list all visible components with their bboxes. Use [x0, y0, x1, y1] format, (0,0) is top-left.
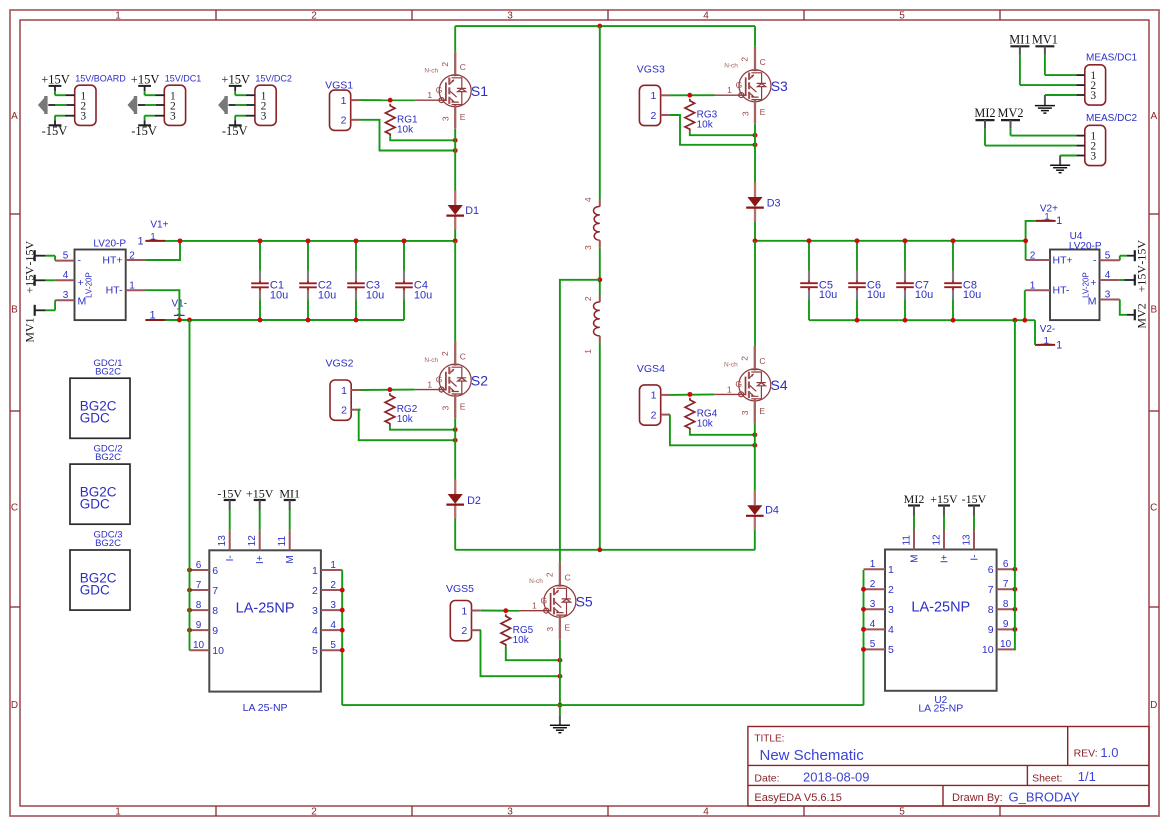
svg-text:7: 7	[196, 580, 202, 591]
svg-text:LV-20P: LV-20P	[85, 272, 94, 298]
svg-text:10: 10	[212, 645, 224, 657]
-15V power flag of P2	[131, 120, 157, 138]
MI1 power flag	[1009, 32, 1030, 55]
svg-text:I+: I+	[255, 555, 266, 564]
svg-text:1: 1	[330, 560, 336, 571]
junction C8 bottom	[951, 318, 956, 323]
svg-text:1: 1	[115, 806, 121, 817]
svg-text:2: 2	[440, 351, 450, 356]
svg-text:1: 1	[341, 95, 347, 107]
svg-text:4: 4	[870, 619, 876, 630]
IC U1 LA-25NP	[209, 550, 321, 691]
svg-text:1: 1	[341, 385, 347, 397]
diode D4	[746, 491, 779, 530]
svg-text:10u: 10u	[915, 289, 933, 301]
M arrow flag of P1	[38, 96, 48, 114]
svg-text:Drawn By:: Drawn By:	[952, 792, 1003, 804]
wire V2- flag drop	[1034, 320, 1036, 345]
svg-text:10: 10	[1000, 639, 1012, 650]
svg-text:11: 11	[902, 535, 913, 546]
svg-text:5: 5	[899, 10, 905, 21]
svg-text:VGS1: VGS1	[325, 80, 353, 92]
junction RG2 top	[387, 387, 392, 392]
svg-text:Date:: Date:	[754, 772, 779, 784]
junction pin 6	[187, 568, 192, 573]
junction RG3/emitter	[753, 133, 758, 138]
svg-text:-15V: -15V	[131, 124, 157, 138]
+15V flag left edge	[22, 266, 55, 294]
svg-text:3: 3	[870, 599, 876, 610]
wire top rail to S3 collector	[754, 26, 756, 47]
pin 10 of U2	[982, 639, 1015, 656]
junction pin 7	[1012, 587, 1017, 592]
svg-text:A: A	[11, 111, 18, 122]
svg-text:LV-20P: LV-20P	[1082, 272, 1091, 298]
MI2 power flag	[974, 106, 995, 129]
pin 4 of U2	[864, 619, 895, 636]
svg-text:1: 1	[532, 601, 537, 611]
svg-text:9: 9	[988, 624, 994, 636]
connector VGS5	[450, 601, 471, 641]
pin 7 of U2	[988, 579, 1015, 596]
svg-text:-15V: -15V	[42, 124, 68, 138]
junction C3 top	[354, 238, 359, 243]
resistor RG4 10k	[685, 398, 718, 430]
wire V1- rail	[166, 319, 404, 321]
svg-text:10u: 10u	[270, 289, 288, 301]
pin 1 stub of VGS2	[351, 389, 360, 391]
junction VGS3.2/emitter	[753, 142, 758, 147]
svg-text:GDC: GDC	[80, 582, 110, 597]
svg-text:2: 2	[650, 110, 656, 122]
svg-text:New Schematic: New Schematic	[760, 747, 865, 764]
junction C7 bottom	[903, 318, 908, 323]
svg-text:+: +	[78, 277, 84, 289]
svg-text:N-ch: N-ch	[529, 578, 543, 585]
junction RG5 top	[503, 608, 508, 613]
svg-text:4: 4	[330, 620, 336, 631]
wire VGS3.1 to gate	[670, 94, 715, 96]
net flag V2-	[1035, 324, 1062, 352]
svg-text:10u: 10u	[819, 289, 837, 301]
svg-text:-15V: -15V	[962, 492, 987, 506]
pin 1 stub (HT-) of U4	[1025, 289, 1050, 291]
pin 2 stub of VGS2	[351, 409, 360, 411]
pin 8 of U2	[988, 599, 1015, 616]
net flag V1-	[145, 299, 187, 322]
-15V power flag of P3	[222, 120, 248, 138]
svg-text:4: 4	[1105, 270, 1111, 281]
connector J2 (MEAS/DC2)	[1085, 113, 1138, 166]
svg-text:3: 3	[545, 627, 555, 632]
junction RG4/emitter	[752, 432, 757, 437]
connector P1 (15V/BOARD)	[75, 73, 127, 125]
pin 2 stub of VGS3	[661, 114, 670, 116]
wire pin3 to ground	[1076, 155, 1084, 157]
MI1 power flag above U1	[279, 487, 300, 531]
svg-text:+15V: +15V	[41, 72, 70, 86]
M arrow flag of P3	[218, 96, 228, 114]
connector VGS3	[639, 85, 660, 125]
junction V2+/HT+	[1023, 238, 1028, 243]
title block	[748, 727, 1149, 807]
svg-text:1: 1	[650, 90, 656, 102]
junction V1- to LA wire	[187, 318, 192, 323]
pin 12 (I+) of U2	[932, 530, 951, 564]
wire top rail	[455, 25, 755, 27]
svg-text:LA-25NP: LA-25NP	[236, 600, 295, 616]
wire S5 emitter down	[559, 639, 561, 705]
svg-text:N-ch: N-ch	[424, 357, 438, 364]
svg-text:+15V: +15V	[246, 487, 274, 501]
svg-text:+: +	[1090, 277, 1096, 289]
pin 5 stub of LV20-P left	[55, 260, 74, 262]
svg-text:10: 10	[982, 644, 994, 656]
svg-text:10k: 10k	[697, 419, 714, 430]
svg-text:N-ch: N-ch	[724, 63, 738, 70]
svg-text:E: E	[759, 406, 765, 416]
pin 3 of U2	[864, 599, 895, 616]
pin 1 stub of VGS3	[661, 94, 670, 96]
svg-text:N-ch: N-ch	[424, 68, 438, 75]
svg-text:-: -	[78, 255, 82, 267]
svg-text:I+: I+	[940, 554, 951, 563]
junction C3 bottom	[354, 318, 359, 323]
wire MI1 to pin2	[1019, 55, 1021, 85]
transistor S5 (N-ch)	[519, 562, 593, 639]
svg-text:VGS5: VGS5	[446, 583, 474, 595]
svg-text:2: 2	[870, 579, 876, 590]
pin 11 (M) of U1	[277, 530, 296, 563]
svg-text:5: 5	[888, 644, 894, 656]
junction pin 3	[340, 608, 345, 613]
wire V1+ rail	[166, 240, 455, 242]
pin 6 of U2	[988, 559, 1015, 576]
svg-text:VGS2: VGS2	[326, 358, 354, 370]
ground of J1	[1035, 106, 1055, 114]
svg-text:1: 1	[1056, 215, 1062, 227]
svg-text:MV1: MV1	[22, 317, 36, 342]
junction RG1 top	[388, 98, 393, 103]
svg-text:GDC: GDC	[80, 411, 110, 426]
wire inductor bottom to lower rail	[599, 343, 601, 550]
net flag V1+	[137, 220, 168, 248]
transistor S1 (N-ch)	[415, 52, 489, 129]
svg-text:M: M	[910, 555, 921, 563]
junction pin 7	[187, 588, 192, 593]
wire RG1 bottom to emitter	[390, 136, 455, 140]
svg-text:D: D	[1150, 700, 1157, 711]
svg-text:2: 2	[330, 580, 336, 591]
pin 2 stub (HT+) of LV20-P left	[126, 259, 146, 261]
wire D1 to V1+ rail	[454, 230, 456, 241]
MV1 flag left edge	[22, 300, 55, 342]
svg-text:10k: 10k	[697, 119, 714, 130]
wire VGS3.2 to emitter	[670, 115, 755, 145]
MV2 power flag	[998, 106, 1024, 129]
wire pin3 of P1	[65, 115, 75, 117]
svg-text:+15V: +15V	[131, 72, 160, 86]
wire S3 emitter to D3	[754, 124, 756, 183]
+15V power flag above U1	[246, 487, 274, 531]
svg-text:4: 4	[312, 625, 318, 637]
pin 8 of U1	[190, 600, 219, 617]
wire RG5 bottom to emitter	[506, 647, 560, 661]
wire inductor top feed	[599, 26, 601, 199]
wire bottom rail	[342, 704, 863, 706]
svg-text:HT+: HT+	[102, 254, 122, 266]
svg-text:VGS3: VGS3	[637, 63, 665, 75]
svg-text:1: 1	[870, 559, 876, 570]
svg-text:MEAS/DC2: MEAS/DC2	[1086, 113, 1138, 124]
connector VGS4	[640, 385, 661, 425]
svg-text:1.0: 1.0	[1100, 745, 1118, 760]
svg-text:6: 6	[212, 565, 218, 577]
svg-text:2: 2	[1030, 250, 1036, 261]
svg-text:4: 4	[888, 624, 894, 636]
wire V2+ node to S4 collector	[754, 241, 756, 346]
wire VGS2.1 to gate	[361, 389, 415, 391]
svg-text:2: 2	[341, 115, 347, 127]
junction VGS5.2/emitter	[557, 674, 562, 679]
svg-text:MI2: MI2	[974, 106, 995, 120]
svg-text:-15V: -15V	[22, 241, 36, 266]
wire V2- rail	[809, 319, 1035, 321]
svg-text:MI1: MI1	[1009, 32, 1030, 46]
svg-text:A: A	[1150, 111, 1157, 122]
junction HT-/V2-	[1022, 318, 1027, 323]
pin 13 (I-) of U2	[962, 530, 981, 561]
svg-text:D4: D4	[765, 505, 779, 517]
MI2 power flag above U2	[904, 492, 925, 529]
svg-text:G: G	[436, 85, 443, 95]
svg-text:1: 1	[137, 235, 143, 247]
svg-text:E: E	[565, 622, 571, 632]
svg-text:2: 2	[583, 296, 593, 301]
diode D2	[446, 480, 481, 519]
svg-text:G: G	[735, 379, 742, 389]
svg-text:C: C	[760, 57, 766, 67]
junction HT+/V1+	[178, 238, 183, 243]
svg-text:LA 25-NP: LA 25-NP	[243, 702, 288, 714]
pin 4 stub of LV20-P left	[55, 279, 74, 281]
connector VGS1	[330, 90, 351, 130]
wire MV1 to pin1	[1044, 55, 1046, 75]
pin 9 of U2	[988, 619, 1015, 636]
svg-text:2: 2	[888, 584, 894, 596]
wire V2- to LA U2 pins	[1014, 320, 1016, 650]
svg-text:HT+: HT+	[1053, 254, 1073, 266]
diode D1	[446, 191, 479, 230]
svg-text:1: 1	[461, 605, 467, 617]
svg-text:-15V: -15V	[222, 124, 248, 138]
module BG2C GDC/3	[70, 530, 130, 611]
connector P3 (15V/DC2)	[255, 73, 292, 125]
+15V power flag of P1	[41, 72, 70, 95]
module BG2C GDC/2	[70, 444, 130, 525]
wire pin1 of P2	[145, 94, 156, 96]
svg-text:2: 2	[651, 409, 657, 421]
wire VGS2.2 to emitter	[359, 410, 456, 441]
pin 3 stub of LV20-P left	[55, 299, 74, 301]
svg-text:1: 1	[727, 85, 732, 95]
svg-text:8: 8	[988, 604, 994, 616]
op-amp/transducer LV20-P left	[75, 238, 127, 320]
svg-text:3: 3	[1105, 290, 1111, 301]
svg-text:GDC: GDC	[80, 497, 110, 512]
svg-text:11: 11	[277, 535, 288, 546]
svg-text:5: 5	[870, 639, 876, 650]
svg-text:LA-25NP: LA-25NP	[911, 600, 970, 616]
junction pin 4	[861, 627, 866, 632]
svg-text:S1: S1	[471, 83, 488, 99]
junction RG4 top	[687, 392, 692, 397]
svg-text:G: G	[736, 80, 743, 90]
junction pin 9	[1012, 627, 1017, 632]
svg-text:1: 1	[888, 564, 894, 576]
wire VGS1.1 to gate	[360, 99, 415, 101]
svg-text:V2-: V2-	[1040, 324, 1056, 335]
svg-text:2: 2	[545, 572, 555, 577]
wire S2 emitter to D2	[454, 418, 456, 479]
inductor L1 upper winding (pins 4-3)	[583, 197, 600, 250]
pin 2 stub (HT+) of U4	[1026, 259, 1050, 261]
svg-text:C: C	[460, 351, 466, 361]
pin 1 of U2	[864, 559, 895, 576]
wire VGS4.1 to gate	[670, 393, 714, 396]
svg-text:1: 1	[1030, 281, 1036, 292]
svg-text:4: 4	[703, 10, 709, 21]
pin 6 of U1	[190, 560, 219, 577]
svg-text:BG2C: BG2C	[95, 366, 121, 377]
svg-text:7: 7	[212, 585, 218, 597]
junction pin 9	[187, 628, 192, 633]
wire S1 emitter to D1	[454, 129, 456, 191]
junction pin 2	[861, 587, 866, 592]
svg-text:HT-: HT-	[106, 285, 123, 297]
+15V power flag of P2	[131, 72, 160, 95]
pin 5 of U2	[864, 639, 895, 656]
svg-text:+15V: +15V	[1134, 265, 1148, 293]
svg-text:C: C	[759, 356, 765, 366]
svg-text:REV:: REV:	[1074, 747, 1098, 759]
svg-text:LV20-P: LV20-P	[1069, 241, 1102, 252]
svg-text:LV20-P: LV20-P	[93, 238, 126, 249]
diode D3	[746, 183, 780, 222]
wire HT- to V1- rail	[145, 290, 179, 320]
svg-text:1: 1	[583, 349, 593, 354]
wire pin3 to ground	[1076, 94, 1084, 96]
junction V2- to LA wire	[1012, 318, 1017, 323]
wire D3 to V2+ rail	[754, 222, 756, 241]
pin 1 stub (HT-) of LV20-P left	[126, 289, 146, 291]
svg-text:7: 7	[1003, 579, 1009, 590]
M arrow flag of P2	[128, 96, 138, 114]
wire lower rail	[455, 549, 755, 551]
svg-text:2: 2	[461, 625, 467, 637]
svg-text:I-: I-	[225, 555, 236, 561]
svg-text:MI1: MI1	[279, 487, 300, 501]
junction C2 bottom	[306, 318, 311, 323]
svg-text:1: 1	[727, 384, 732, 394]
wire RG3 bottom to emitter	[690, 131, 755, 135]
svg-text:10: 10	[193, 640, 205, 651]
svg-text:3: 3	[170, 111, 176, 123]
ruler numbers top	[115, 10, 905, 21]
pin 10 of U1	[190, 640, 225, 657]
svg-text:S3: S3	[771, 78, 788, 94]
svg-text:15V/DC2: 15V/DC2	[255, 73, 292, 83]
svg-text:3: 3	[740, 111, 750, 116]
designator of U2	[918, 695, 963, 715]
junction VGS4.2/emitter	[752, 443, 757, 448]
svg-text:3: 3	[507, 10, 513, 21]
wire D2 to lower rail	[454, 519, 456, 550]
junction C2 top	[306, 238, 311, 243]
svg-text:15V/BOARD: 15V/BOARD	[75, 73, 126, 83]
ruler letters right	[1150, 111, 1157, 711]
svg-text:LA 25-NP: LA 25-NP	[918, 702, 963, 714]
svg-text:9: 9	[1003, 619, 1009, 630]
svg-text:5: 5	[330, 640, 336, 651]
resistor RG3 10k	[685, 99, 718, 131]
capacitor C2	[299, 241, 336, 320]
-15V power flag above U1	[217, 487, 242, 531]
svg-text:10u: 10u	[414, 289, 432, 301]
junction pin 8	[1012, 607, 1017, 612]
wire inductor mid	[599, 247, 601, 295]
op-amp/transducer U4 LV20-P	[1050, 231, 1102, 320]
pin 3 stub of U4	[1100, 299, 1120, 301]
svg-text:BG2C: BG2C	[95, 452, 121, 463]
designator of U1	[243, 702, 288, 714]
svg-text:MV2: MV2	[998, 106, 1024, 120]
capacitor C4	[395, 241, 432, 320]
svg-text:3: 3	[261, 111, 267, 123]
wire tap to S5 column	[560, 280, 600, 562]
svg-text:C: C	[1150, 503, 1157, 514]
ground of J2	[1050, 165, 1070, 173]
wire pin2 of P3	[229, 104, 236, 106]
junction RG3 top	[687, 93, 692, 98]
pin 1 stub of VGS5	[472, 610, 481, 612]
svg-text:G_BRODAY: G_BRODAY	[1009, 789, 1081, 804]
svg-text:MI2: MI2	[904, 492, 925, 506]
svg-text:1: 1	[651, 390, 657, 402]
svg-text:3: 3	[507, 806, 513, 817]
svg-text:6: 6	[988, 564, 994, 576]
junction C4 top	[402, 238, 407, 243]
wire D4 to lower rail	[754, 530, 756, 550]
svg-text:2: 2	[341, 405, 347, 417]
svg-text:3: 3	[1090, 150, 1096, 162]
svg-text:2: 2	[311, 10, 317, 21]
svg-text:2: 2	[129, 250, 135, 261]
junction VGS1.2/emitter	[453, 148, 458, 153]
ruler numbers bottom	[115, 806, 905, 817]
svg-text:2: 2	[740, 57, 750, 62]
svg-text:4: 4	[703, 806, 709, 817]
svg-text:3: 3	[312, 605, 318, 617]
svg-text:1: 1	[115, 10, 121, 21]
connector P2 (15V/DC1)	[164, 73, 201, 125]
svg-text:6: 6	[196, 560, 202, 571]
svg-text:C: C	[565, 572, 571, 582]
junction inductor tap	[597, 277, 602, 282]
svg-text:2: 2	[312, 585, 318, 597]
pin 5 stub of U4	[1100, 259, 1120, 261]
svg-text:10k: 10k	[513, 635, 530, 646]
